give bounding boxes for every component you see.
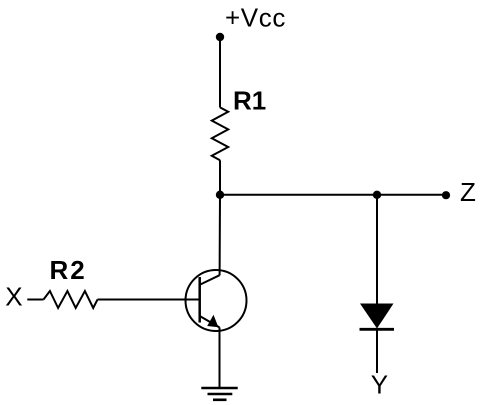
svg-text:R2: R2 <box>50 255 87 285</box>
svg-text:Y: Y <box>371 370 388 400</box>
svg-text:+Vcc: +Vcc <box>225 3 286 33</box>
svg-text:Z: Z <box>460 177 476 207</box>
svg-text:X: X <box>5 282 22 312</box>
svg-text:R1: R1 <box>233 86 266 116</box>
